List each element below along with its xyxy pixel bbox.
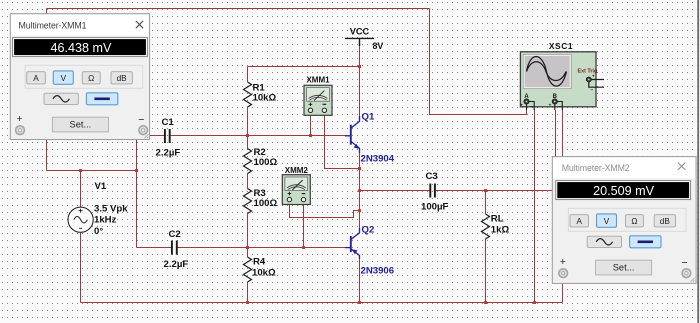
svg-text:C3: C3 bbox=[426, 171, 438, 182]
svg-text:+: + bbox=[560, 256, 566, 268]
svg-text:V1: V1 bbox=[95, 181, 107, 192]
svg-text:Ω: Ω bbox=[631, 217, 637, 226]
svg-text:2.2µF: 2.2µF bbox=[156, 148, 181, 159]
svg-text:Q1: Q1 bbox=[362, 112, 375, 123]
wire bottom ground rail bbox=[81, 302, 563, 304]
svg-text:2N3904: 2N3904 bbox=[361, 154, 395, 165]
junction output node to C3 bbox=[358, 189, 361, 192]
svg-text:1kHz: 1kHz bbox=[94, 215, 117, 226]
arrow Q1 emitter bbox=[354, 144, 360, 149]
svg-text:20.509 mV: 20.509 mV bbox=[593, 184, 655, 198]
svg-text:dB: dB bbox=[660, 217, 671, 226]
svg-text:XSC1: XSC1 bbox=[549, 41, 573, 51]
junction R1/R2 node at base wire bbox=[246, 134, 249, 137]
junction XMM2+ on emitter column bbox=[358, 209, 361, 212]
svg-text:100µF: 100µF bbox=[421, 202, 449, 213]
capacitor C3 bbox=[430, 184, 435, 198]
wire RL bottom lead bbox=[485, 239, 487, 303]
wire Q2 emitter to ground rail bbox=[359, 258, 361, 303]
wire XMM1 minus lead bbox=[325, 115, 360, 168]
junction R3/R4 node on Q2 base wire bbox=[246, 246, 249, 249]
resistor R4 bbox=[244, 257, 252, 282]
wire XMM2 plus jog to output node bbox=[290, 204, 360, 217]
resistor RL bbox=[482, 214, 490, 239]
wire C2 left segment bbox=[137, 247, 172, 249]
junction XMM1- on emitter bbox=[358, 167, 361, 170]
svg-text:2N3906: 2N3906 bbox=[361, 266, 395, 277]
svg-text:A: A bbox=[576, 217, 582, 226]
wire scope A- ground drop x=534.2 bbox=[534, 109, 536, 303]
svg-text:−: − bbox=[559, 104, 562, 109]
svg-text:Multimeter-XMM2: Multimeter-XMM2 bbox=[562, 163, 630, 173]
svg-text:Set...: Set... bbox=[70, 119, 92, 129]
wire C1 left segment bbox=[137, 135, 165, 137]
transistor Q1 (NPN 2N3904) bbox=[345, 116, 360, 153]
svg-text:dB: dB bbox=[117, 74, 128, 83]
svg-text:+: + bbox=[17, 113, 23, 125]
resistor R2 bbox=[244, 149, 252, 174]
wire y=170.3 from riser to C1/C2 branch bbox=[47, 170, 137, 172]
junction XMM2- on Q2 base wire bbox=[302, 246, 305, 249]
junction C1/C2 branch corner bbox=[135, 169, 138, 172]
svg-text:8V: 8V bbox=[373, 41, 384, 51]
wire RL top lead bbox=[485, 191, 487, 215]
svg-text:Q2: Q2 bbox=[362, 225, 375, 236]
instrument icon XMM2 bbox=[282, 175, 310, 205]
svg-text:Multimeter-XMM1: Multimeter-XMM1 bbox=[19, 20, 87, 30]
wire XMM2 minus lead bbox=[303, 204, 305, 247]
junction VCC tap bbox=[358, 65, 361, 68]
svg-text:100Ω: 100Ω bbox=[254, 157, 278, 168]
wire scope A+ input path bbox=[430, 9, 527, 115]
svg-text:−: − bbox=[591, 88, 594, 93]
svg-text:+: + bbox=[592, 74, 595, 79]
source V1 (AC) bbox=[68, 207, 93, 232]
junction RL top on output wire bbox=[484, 189, 487, 192]
wire left riser x=46.8 behind XMM1 window bbox=[46, 9, 48, 171]
svg-text:100Ω: 100Ω bbox=[254, 198, 278, 209]
junction Q2 emitter on ground rail bbox=[358, 301, 361, 304]
junction R4 on ground rail bbox=[246, 301, 249, 304]
svg-text:0°: 0° bbox=[94, 226, 103, 237]
capacitor C1 bbox=[165, 129, 170, 143]
wire branch riser x=136.8 (C1 to C2) bbox=[136, 136, 138, 248]
svg-text:V: V bbox=[61, 74, 67, 83]
svg-text:V: V bbox=[604, 217, 610, 226]
power symbol VCC bbox=[345, 38, 374, 46]
arrow Q2 emitter (PNP points in) bbox=[352, 249, 358, 254]
wire Q1 emitter to Q2 collector x=359.5 bbox=[359, 152, 361, 229]
svg-text:C2: C2 bbox=[169, 229, 181, 240]
wire XMM1 plus lead bbox=[310, 115, 312, 135]
svg-text:+: + bbox=[520, 103, 523, 108]
resistor R1 bbox=[244, 82, 252, 107]
multimeter window XMM1 bbox=[10, 14, 149, 140]
junction RL on ground rail bbox=[484, 301, 487, 304]
svg-text:RL: RL bbox=[491, 214, 504, 225]
svg-text:3.5 Vpk: 3.5 Vpk bbox=[94, 204, 128, 215]
wire scope B+ drop x=555.1 bbox=[555, 110, 557, 191]
instrument icon XSC1 oscilloscope bbox=[520, 52, 604, 110]
multimeter window XMM2 bbox=[552, 157, 696, 284]
wire output node to C3 bbox=[360, 190, 430, 192]
wire bias ladder column x=247.5 leads bbox=[247, 67, 249, 83]
svg-text:−: − bbox=[531, 104, 534, 109]
junction scope A- on ground rail bbox=[533, 301, 536, 304]
svg-text:XMM2: XMM2 bbox=[285, 166, 309, 175]
svg-text:2.2µF: 2.2µF bbox=[164, 259, 189, 270]
wire scope B- ground drop x=562.3 bbox=[562, 109, 564, 303]
wire V1 bottom lead bbox=[80, 232, 82, 302]
junction V1 top tap bbox=[79, 169, 82, 172]
wire C3 right to load and scope B bbox=[436, 190, 555, 192]
junction XMM1+ on base wire bbox=[309, 134, 312, 137]
resistor R3 bbox=[244, 189, 252, 214]
workspace right border bbox=[697, 0, 699, 323]
svg-text:A: A bbox=[33, 74, 39, 83]
svg-text:Set...: Set... bbox=[613, 262, 635, 272]
svg-text:46.438 mV: 46.438 mV bbox=[50, 41, 112, 55]
svg-text:R4: R4 bbox=[253, 257, 266, 268]
wire C2 right to Q2 base bbox=[178, 247, 347, 249]
svg-text:C1: C1 bbox=[162, 117, 175, 128]
wire VCC rail y=66.4 bbox=[248, 66, 360, 68]
transistor Q2 (PNP 2N3906) bbox=[345, 228, 360, 259]
svg-text:−: − bbox=[682, 257, 688, 269]
wire top rail from V1+ riser to scope A corner bbox=[47, 8, 430, 10]
svg-text:10kΩ: 10kΩ bbox=[252, 268, 276, 279]
svg-text:−: − bbox=[138, 114, 144, 126]
svg-text:10kΩ: 10kΩ bbox=[253, 93, 277, 104]
svg-text:1kΩ: 1kΩ bbox=[491, 225, 510, 236]
svg-text:Ω: Ω bbox=[88, 74, 94, 83]
svg-text:XMM1: XMM1 bbox=[306, 76, 330, 85]
capacitor C2 bbox=[172, 241, 177, 255]
svg-text:VCC: VCC bbox=[350, 27, 370, 37]
wire V1 top lead bbox=[80, 171, 82, 208]
instrument icon XMM1 bbox=[304, 85, 332, 115]
wire C1 right to Q1 base (node A) bbox=[171, 135, 347, 137]
svg-text:+: + bbox=[549, 103, 552, 108]
wire VCC drop to Q1 collector bbox=[359, 40, 361, 117]
